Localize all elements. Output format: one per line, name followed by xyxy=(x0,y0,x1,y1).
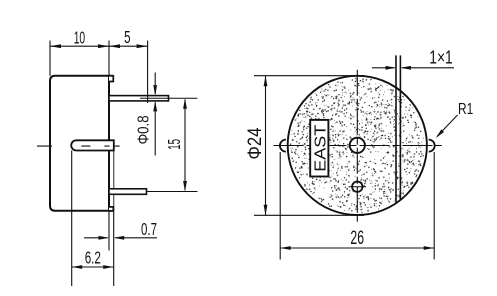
svg-text:0.7: 0.7 xyxy=(141,219,157,239)
1x1 chord lines xyxy=(395,55,397,203)
dimension texts, left view xyxy=(74,27,157,267)
dimension line 10 and 5 xyxy=(50,45,148,47)
arrowheads, left view xyxy=(50,44,187,269)
phi24 extension lines xyxy=(254,75,364,77)
EAST label xyxy=(310,120,328,177)
svg-text:26: 26 xyxy=(350,227,364,249)
extension lines for 10 / 5 xyxy=(49,41,51,76)
svg-text:1×1: 1×1 xyxy=(429,48,453,68)
main circle xyxy=(288,76,427,215)
buzzer body xyxy=(50,76,113,211)
svg-text:Φ0.8: Φ0.8 xyxy=(135,115,152,144)
svg-text:5: 5 xyxy=(124,27,130,47)
speckle texture xyxy=(291,79,424,213)
extension line 6.2 left (from slot) xyxy=(71,151,73,287)
arrowheads, right view xyxy=(264,66,444,250)
1x1 dim lines xyxy=(372,67,395,69)
R1 leader xyxy=(437,115,458,137)
phi24 dim line xyxy=(265,76,267,216)
lower hole xyxy=(352,182,362,192)
center hole xyxy=(350,138,365,153)
lower hole tick xyxy=(349,186,367,188)
body front edge xyxy=(108,76,110,211)
dim line 6.2 xyxy=(72,266,114,268)
dim line 0.7 right part xyxy=(115,237,157,239)
svg-text:15: 15 xyxy=(164,139,184,150)
extension line 0.7/6.2 right (lip face) xyxy=(113,151,115,287)
top lip xyxy=(109,76,113,82)
left ear R1 xyxy=(280,140,286,152)
dim line 0.7 left part xyxy=(84,237,108,239)
bottom lip xyxy=(109,207,113,211)
svg-text:EAST: EAST xyxy=(313,124,330,171)
svg-text:Φ24: Φ24 xyxy=(245,127,266,159)
dim line phi0.8 upper xyxy=(154,73,156,95)
horizontal centerline xyxy=(274,145,442,147)
centerline of slot xyxy=(37,145,120,147)
vertical centerline xyxy=(356,70,358,222)
26 extension lines xyxy=(279,152,281,260)
26 dim line xyxy=(280,247,434,249)
side slot (capsule) xyxy=(71,140,114,150)
dim line 15 xyxy=(184,100,186,191)
bottom lead xyxy=(109,189,147,195)
right ear R1 xyxy=(429,140,435,152)
svg-text:6.2: 6.2 xyxy=(85,247,101,267)
svg-text:10: 10 xyxy=(74,28,86,48)
top lead xyxy=(109,96,169,101)
svg-text:R1: R1 xyxy=(458,101,473,118)
dim line phi0.8 lower xyxy=(154,103,156,156)
extension line 0.7 left (body face) xyxy=(108,211,110,251)
lead axis lines xyxy=(140,97,198,99)
